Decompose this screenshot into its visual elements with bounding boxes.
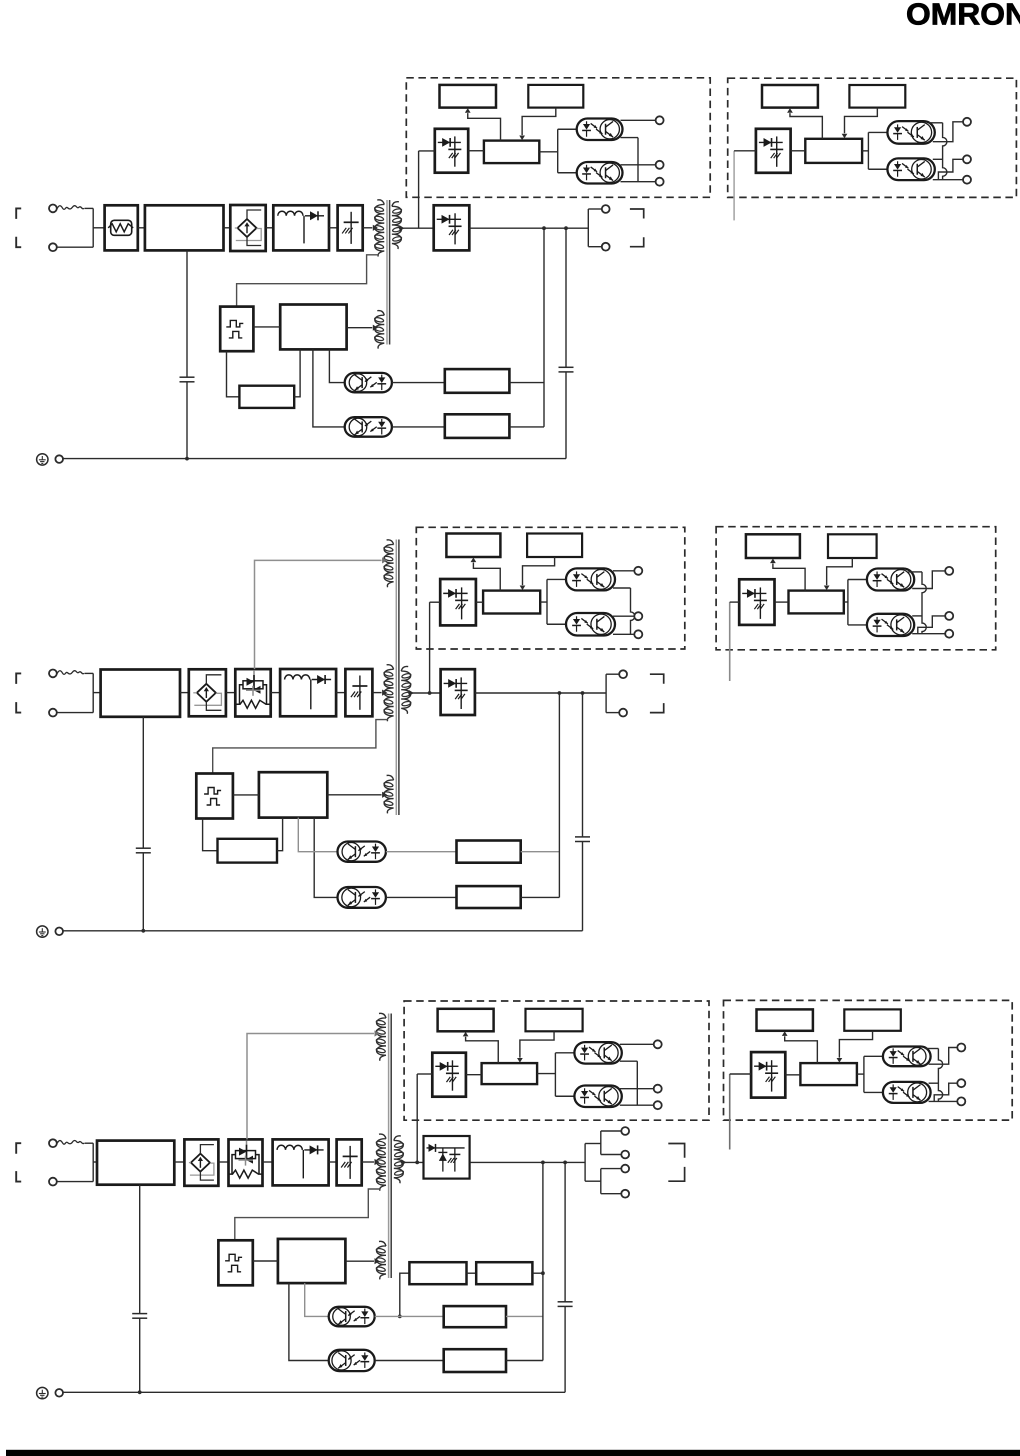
D1 24V control output terminal 1 [963,118,971,126]
D1 12V control wire: block2 to control (down arrow) [522,108,556,136]
D2 wire [386,896,457,898]
D1 12V control control box (middle) [484,141,539,164]
D2 input terminal N [49,709,57,717]
D1 12V control wire: control to block1 (up arrow) [468,113,501,141]
D1 output terminal stubs [587,209,589,247]
D3 wire [467,1272,477,1274]
D2 transformer core [395,540,397,816]
D2 photocoupler 2 (overvoltage detection) [338,887,386,908]
D3 12V control output terminal 2 [654,1085,662,1093]
D2 wire [226,692,235,694]
D3 compensation box 2 [476,1262,532,1284]
D3 wire: rectifier into dashed block [416,1074,418,1162]
D3 12V control wire: control to block1 (up arrow) [466,1037,499,1063]
D2 input wiring [85,672,94,674]
D3 wire: primary return to oscillator [235,1189,380,1240]
D2 wire [521,896,560,898]
D1 wire [392,382,445,384]
D3 24V control output terminal 3 [957,1097,965,1105]
D2 PWM control box [259,772,327,817]
D1 output terminal +V [602,205,610,213]
D3 output terminal 3 [621,1165,629,1173]
D1 24V control block 1 (upper-left empty box) [762,85,818,108]
D1 wire: filter box to ground line [186,250,188,377]
D1 wire: PWM to photocoupler 1 [329,349,344,382]
D3 24V control wire: coupler A emitter to terminal 1 [929,1048,958,1065]
D1 12V control output terminal 3 [656,178,664,186]
D3 transformer core [388,1014,390,1279]
D2 wire: rectifier into dashed block [429,602,431,693]
D2 24V control output terminal 1 [945,567,953,575]
D3 wire: filter box to ground line [139,1185,141,1314]
D3 12V control wire: control output split to photocouplers [537,1073,555,1075]
D1 12V control output terminal 2 [656,161,664,169]
D2 wire: PWM to photocoupler 1 [298,818,337,852]
D2 12V control block 2 (upper-right empty box) [527,534,582,558]
D2 input continuation marks [16,673,21,684]
D2 wire: feedback box to PWM [277,818,283,851]
D3 24V control block 2 (upper-right empty box) [844,1009,901,1030]
D3 12V control wire: coupler B emitter to terminal 3 [620,1104,654,1106]
D1 wire: oscillator to feedback box [227,351,240,397]
D2 12V control rectifier/smoother box [440,579,476,625]
D2 oscillator box [196,774,233,819]
D2 24V control wire: control to block1 (up arrow) [773,564,805,591]
D2 wire: oscillator to feedback box [203,819,218,851]
D3 noise filter box [97,1141,174,1185]
D2 wire: filter box to ground line [142,717,144,848]
D3 24V control rectifier/smoother box [751,1052,785,1098]
D1 12V control wire: control output split to photocouplers [539,151,557,153]
D3 24V control wire: rectifier to control [785,1074,800,1076]
D3 ground terminal [55,1389,63,1397]
D3 24V control block 1 (upper-left empty box) [757,1009,813,1030]
D2 inrush protection circuit box [235,669,270,716]
D3 12V control rectifier/smoother box [432,1053,466,1097]
svg-text:OMRON: OMRON [906,0,1020,32]
D1 output capacitor [565,228,567,367]
D1 12V control rectifier/smoother box [435,129,468,173]
D2 24V control photocoupler A [867,569,914,591]
D2 input terminal L [49,670,57,678]
D2 ground line [63,930,582,932]
D2 12V block wire to rectifier [430,601,441,603]
D2 24V control output terminal 3 [945,630,953,638]
D2 chopper box (inductor + diode) [280,669,336,716]
D1 24V control common vertical with crossover hops [943,123,947,180]
D2 12V control wire: coupler A collector to terminal 1 [613,570,634,572]
D1 ground terminal [55,455,63,463]
D1 wire [138,227,145,229]
D3 feedback network box 1 [444,1306,506,1327]
D2 transformer primary winding [384,665,393,722]
D1 transformer core [386,200,388,345]
D2 feedback divider vertical [558,693,560,897]
D2 output rectifier box [441,669,475,715]
D1 wire [266,227,274,229]
D1 rectifier bridge box [230,205,265,251]
D2 24V control block 1 (upper-left empty box) [746,534,800,558]
D2 smoothing capacitor box [345,669,372,716]
D1 12V control block 1 (upper-left empty box) [440,85,497,108]
D1 fuse [57,206,84,210]
D1 input terminal L [49,205,57,213]
D1 12V control output terminal 1 [656,116,664,124]
D1 wire [509,382,544,384]
D3 wire [174,1161,184,1163]
D2 input Y-capacitor [136,847,151,849]
D1 protective earth symbol [37,454,48,465]
D3 24V control wire: coupler A collector to common vertical [925,1048,939,1050]
D1 wire: oscillator to PWM [253,326,280,328]
D2 feedback box (under oscillator) [218,839,278,863]
D1 12V control photocoupler B [577,162,623,184]
D1 input continuation marks [16,208,21,219]
D2 12V control wire: coupler A emitter down to common [613,587,631,589]
D1 12V control wire: coupler B collector to terminal 2 [621,164,656,166]
D3 24V control wire: control to block1 (up arrow) [785,1036,818,1063]
D1 wire: primary return to oscillator [237,255,379,307]
D2 feedback network box 2 [457,886,521,908]
D1 12V block wire to rectifier [419,150,435,152]
D1 wire to transformer primary [363,227,373,229]
D3 12V control control box (middle) [482,1063,537,1084]
D2 24V control wire: common to terminal 3 [912,633,945,635]
D3 wire [375,1360,444,1362]
D3 12V control wire: coupler A collector to terminal 1 [620,1043,654,1045]
D1 ground line [63,458,566,460]
D2 24V control wire: control output split to photocouplers [844,601,848,603]
D1 24V control wire: rectifier to control [791,150,806,152]
D2 wire [386,851,457,853]
D1 output terminal -V [602,243,610,251]
D3 compensation box 1 [409,1262,466,1284]
D1 12V control wire: coupler A collector to terminal 1 [621,119,656,121]
D3 24V control wire: block2 to control (down arrow) [839,1031,872,1058]
D2 12V control photocoupler A [566,568,615,590]
D2 wire [521,851,560,853]
D1 24V control control box (middle) [805,139,862,163]
D3 fuse [57,1140,84,1144]
D3 12V control dashed enclosure [404,1001,709,1120]
D3 12V control block 2 (upper-right empty box) [526,1009,583,1032]
D3 wire: PWM to photocoupler 2 [289,1283,329,1360]
D3 output terminal 2 [621,1151,629,1159]
D1 12V control dashed enclosure [406,78,710,198]
D1 24V control wire: control to block1 (up arrow) [790,113,822,139]
D2 output terminal stubs [605,674,607,712]
D2 24V control wire: coupler A emitter to terminal 1 [912,571,945,589]
D3 protective earth symbol [37,1387,48,1398]
D2 fuse [57,671,84,675]
D3 input terminal N [49,1178,57,1186]
D3 secondary output wire [401,1161,424,1163]
D3 24V control wire: common to terminal 3 [929,1100,958,1102]
D1 output line [469,227,588,229]
D1 24V block hanging wire [733,151,735,221]
D3 photocoupler 1 (voltage feedback) [329,1307,375,1327]
D1 24V control wire: coupler A collector to common vertical [929,122,943,124]
D1 24V control wire: coupler A emitter to terminal 1 [933,122,963,142]
D2 wire [271,692,280,694]
D1 wire [509,426,544,428]
D1 photocoupler 1 (voltage feedback) [345,373,392,392]
D2 24V control wire: rectifier to control [775,601,789,603]
D3 wire: PWM to photocoupler 1 [305,1283,329,1316]
D1 wire: rectifier into dashed block [418,151,420,228]
D1 24V control wire: block2 to control (down arrow) [844,108,877,134]
D1 PWM control box [280,305,346,350]
D1 12V control block 2 (upper-right empty box) [528,85,583,108]
D3 12V control wire: rectifier to control [466,1074,482,1076]
D3 PWM control box [278,1239,346,1283]
D3 24V control wire: terminal 2 to coupler B emitter [934,1083,957,1101]
D3 smoothing capacitor box [337,1139,362,1185]
D3 24V control photocoupler B [883,1082,931,1103]
D2 wire from protection circuit to upper winding [255,560,382,669]
D3 feedback divider vertical [542,1162,544,1360]
D2 12V control control box (middle) [483,591,540,614]
D2 24V control dashed enclosure [716,527,996,650]
D3 wire: compensation to output divider [532,1272,543,1274]
D3 24V control common vertical with crossover hops [938,1049,942,1102]
D2 12V control output terminal 1 [634,567,642,575]
D1 24V control wire: coupler B collector joins common [933,158,943,160]
D2 wire [180,692,189,694]
D3 input Y-capacitor [132,1313,147,1315]
D3 photocoupler 2 (overvoltage detection) [329,1350,375,1371]
D1 smoothing capacitor box [338,205,363,250]
D2 wire: PWM to auxiliary winding [327,794,381,796]
D3 12V control wire: coupler A emitter down to common [620,1060,638,1062]
D2 24V control control box (middle) [789,591,844,614]
D1 wire: feedback box to PWM [294,349,300,396]
D2 12V control output terminal 2 [634,612,642,620]
D2 24V control wire: coupler B collector joins common [912,615,922,617]
D1 photocoupler 2 (overvoltage detection) [345,417,392,437]
D2 24V control wire: block2 to control (down arrow) [827,558,853,585]
D3 transformer primary winding [377,1134,386,1191]
D3 output continuation marks [668,1144,684,1158]
D2 ground terminal [55,928,63,936]
D3 output capacitor [564,1162,566,1301]
D1 transformer auxiliary winding [375,311,384,349]
D3 wire from protection circuit to upper winding [247,1034,374,1140]
D1 feedback network box 1 [445,369,510,393]
D2 24V block hanging wire [729,602,731,681]
D3 transformer secondary winding [394,1136,403,1183]
D2 24V control common vertical with crossover hops [922,572,926,634]
D1 transformer secondary winding [392,202,401,249]
D1 output rectifier box [434,205,470,250]
D3 24V block hanging wire [729,1074,731,1150]
D2 protective earth symbol [37,926,48,937]
D2 wire [336,692,345,694]
D2 transformer auxiliary winding [384,775,393,813]
D3 24V control dashed enclosure [724,1000,1013,1120]
D2 output terminal -V [619,709,627,717]
D1 wire [329,227,338,229]
D3 12V control photocoupler A [574,1042,621,1064]
D2 24V control wire: coupler A collector to common vertical [908,571,922,573]
D3 inrush protection circuit box [229,1139,263,1185]
D2 noise filter box [101,670,180,717]
D3 transformer upper primary winding [377,1013,386,1060]
D2 24V control wire: terminal 2 to coupler B emitter [918,616,945,634]
D3 wire [263,1161,273,1163]
D3 wire: photocoupler node up to compensation boxes [400,1273,410,1316]
D1 wire [224,227,231,229]
D1 24V control photocoupler B [887,158,934,180]
D1 24V control wire: control output split to photocouplers [862,150,868,152]
D3 input terminal L [49,1139,57,1147]
D2 wire: oscillator to PWM [233,794,259,796]
D1 transformer primary winding [375,200,384,257]
D3 wire: oscillator to PWM [253,1260,278,1262]
D1 oscillator box [220,307,253,352]
D2 12V control wire: control to block1 (up arrow) [473,563,500,591]
D3 wire [375,1315,444,1317]
D3 wire [329,1161,337,1163]
D3 12V control block 1 (upper-left empty box) [438,1009,494,1032]
D3 wire [506,1360,543,1362]
D1 wire [392,426,445,428]
D1 24V control photocoupler A [887,121,934,144]
D2 24V control block 2 (upper-right empty box) [828,534,877,558]
D2 12V control photocoupler B [566,613,615,636]
D1 12V control wire: rectifier to control [468,150,484,152]
D3 12V block wire to rectifier [417,1073,432,1075]
D1 12V control wire: coupler B emitter to terminal 3 [621,181,656,183]
D1 secondary output wire [399,227,434,229]
D2 wire to transformer primary [372,692,381,694]
D3 input wiring [85,1142,94,1144]
D1 feedback divider vertical [543,228,545,427]
D1 24V control wire: terminal 2 to coupler B emitter [938,159,963,179]
D3 wire [218,1161,228,1163]
D2 12V control output terminal 3 [634,630,642,638]
D3 24V control output terminal 2 [957,1079,965,1087]
D3 24V control wire: control output split to photocouplers [857,1073,864,1075]
D2 output terminal +V [619,670,627,678]
D2 12V control wire: rectifier to control [476,601,483,603]
D3 output terminal tree [584,1144,586,1182]
D1 input terminal N [49,243,57,251]
D2 12V control block 1 (upper-left empty box) [446,534,500,558]
D1 24V control block 2 (upper-right empty box) [849,85,905,108]
D1 24V control rectifier/smoother box [756,129,791,173]
D1 feedback box (under oscillator) [239,386,294,408]
D3 ground line [63,1391,565,1393]
D1 24V control output terminal 3 [963,176,971,184]
D3 wire: PWM to auxiliary winding [345,1260,374,1262]
D2 24V control photocoupler B [867,614,914,636]
D2 12V control wire: control output split to photocouplers [540,601,547,603]
D3 12V control output terminal 1 [654,1040,662,1048]
D3 transformer auxiliary winding [377,1241,386,1279]
D3 12V control wire: coupler B collector to terminal 2 [620,1088,654,1090]
D3 output terminal 4 [621,1190,629,1198]
D3 wire to transformer primary [362,1161,374,1163]
D3 wire [506,1315,543,1317]
D3 24V control control box (middle) [800,1063,857,1085]
D3 24V control photocoupler A [883,1047,931,1067]
D2 wire: primary return to oscillator [213,720,388,774]
D2 output line [475,692,606,694]
D3 24V control output terminal 1 [957,1044,965,1052]
D1 feedback network box 2 [445,414,510,438]
D2 12V control dashed enclosure [416,527,685,649]
D1 chopper box (inductor + diode) [273,205,329,250]
D2 12V control wire: coupler B emitter to terminal 3 [613,633,634,635]
D2 wire: PWM to photocoupler 2 [314,818,337,898]
D2 12V control wire: coupler B collector to terminal 2 [613,615,634,617]
D3 feedback network box 2 [444,1349,506,1372]
D2 12V control wire: block2 to control (down arrow) [522,557,554,585]
D1 input wiring [85,207,94,209]
D3 rectifier bridge box [184,1139,218,1185]
D2 transformer secondary winding [401,666,410,713]
D1 24V control wire: common to terminal 3 [933,179,963,181]
D3 input continuation marks [16,1143,21,1154]
D2 output capacitor [582,693,584,837]
D3 output terminal 1 [621,1127,629,1135]
D3 oscillator box [218,1240,252,1285]
D3 output rectifier box [424,1136,470,1179]
D2 rectifier bridge box [189,669,226,716]
D2 photocoupler 1 (voltage feedback) [338,842,386,862]
D1 thermistor (inrush limiter) [105,205,138,250]
D2 feedback network box 1 [457,841,521,863]
D3 12V control output terminal 3 [654,1101,662,1109]
D2 24V control rectifier/smoother box [739,579,774,625]
D1 24V control dashed enclosure [728,78,1017,197]
D2 transformer upper primary winding [384,540,393,587]
D2 output continuation marks [650,674,664,684]
D2 secondary output wire [408,692,440,694]
footer rule [6,1450,1020,1456]
D1 output continuation marks [630,209,644,219]
D1 12V control wire: coupler A emitter down to common [621,137,639,139]
D3 output line [470,1161,585,1163]
D1 12V control photocoupler A [577,119,623,141]
D1 wire: PWM to photocoupler 2 [313,349,345,427]
D1 noise filter box [145,205,224,250]
D3 24V control wire: coupler B collector joins common [929,1082,939,1084]
D2 24V control output terminal 2 [945,612,953,620]
D1 wire: PWM to auxiliary winding [347,327,373,329]
D3 chopper box (inductor + diode) [273,1139,329,1185]
D1 input Y-capacitor [180,376,195,378]
D3 12V control photocoupler B [574,1086,621,1108]
D1 24V control output terminal 2 [963,155,971,163]
D3 12V control wire: block2 to control (down arrow) [520,1031,554,1057]
